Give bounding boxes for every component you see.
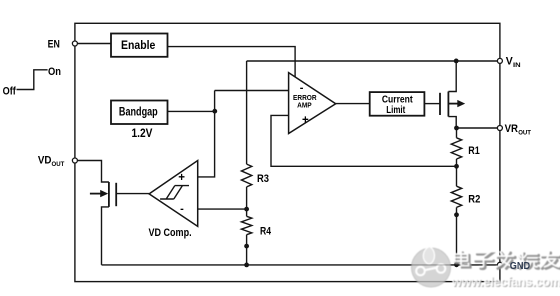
- junction dot bandgap node: [212, 109, 217, 114]
- svg-text:+: +: [178, 172, 185, 184]
- wire error amp plus input from feedback: [271, 115, 457, 166]
- svg-text:Bandgap: Bandgap: [119, 106, 158, 118]
- junction dot below R4: [244, 244, 249, 249]
- wire error amp output to current limit: [336, 103, 370, 105]
- svg-text:GND: GND: [510, 261, 530, 272]
- resistor R3: [241, 164, 251, 187]
- terminal GND: [497, 262, 502, 267]
- terminal VROUT: [497, 126, 502, 131]
- hysteresis symbol: [160, 186, 189, 199]
- svg-text:www.elecfans.com: www.elecfans.com: [451, 275, 560, 289]
- terminal VIN: [497, 58, 502, 63]
- svg-text:EN: EN: [48, 38, 60, 50]
- wire R3 top gap: [246, 187, 248, 216]
- junction dot VROUT at FET source: [454, 126, 459, 131]
- svg-text:VD Comp.: VD Comp.: [149, 227, 192, 239]
- junction dot below R2: [454, 212, 459, 217]
- transistor Q2 (pass FET): [440, 92, 458, 117]
- wire R2 bottom to ground bus: [456, 207, 458, 264]
- transistor Q1 (VDOUT sense FET): [90, 182, 116, 207]
- block Bandgap: [111, 101, 168, 125]
- svg-text:On: On: [48, 66, 61, 78]
- junction dot VIN at FET drain: [454, 59, 459, 64]
- terminal VDOUT: [72, 158, 77, 163]
- watermark url text www.elecfans.com: [451, 275, 560, 290]
- wire pass FET drain to VIN: [448, 61, 456, 92]
- wire VROUT row: [456, 127, 500, 129]
- outer frame rectangle (VIN/GND rails): [75, 23, 500, 281]
- svg-text:VR: VR: [505, 123, 518, 135]
- junction dot R2 column on ground bus: [454, 262, 459, 267]
- wire pass FET source to VROUT: [448, 117, 456, 128]
- wire error amp minus input: [215, 90, 289, 92]
- svg-text:R1: R1: [468, 145, 480, 157]
- terminal EN: [72, 41, 77, 46]
- svg-text:Off: Off: [3, 85, 16, 97]
- svg-text:R2: R2: [468, 194, 480, 206]
- wire VDOUT to sense FET drain: [75, 161, 109, 183]
- junction dot divider on ground bus: [244, 263, 249, 268]
- svg-text:R3: R3: [257, 173, 269, 185]
- wire VD comp output to sense FET gate: [116, 193, 149, 195]
- wire VD comp minus input to divider tap: [198, 208, 247, 210]
- wire sense FET source to ground bus: [102, 207, 109, 265]
- svg-text:IN: IN: [513, 62, 521, 69]
- wire bandgap output: [168, 110, 215, 112]
- svg-text:AMP: AMP: [297, 100, 312, 109]
- svg-text:1.2V: 1.2V: [132, 128, 153, 140]
- svg-text:OUT: OUT: [518, 129, 532, 136]
- svg-text:VD: VD: [38, 154, 52, 166]
- wire Enable output to error amp top edge: [168, 47, 296, 77]
- wire current limit to pass FET gate: [424, 103, 440, 105]
- svg-text:OUT: OUT: [52, 161, 66, 168]
- wire bandgap reference column: [198, 91, 215, 177]
- on/off switch waveform: [17, 70, 48, 90]
- wire divider column top (VIN to R3): [246, 61, 248, 164]
- watermark logo circle: [412, 247, 451, 288]
- wire EN to Enable box: [75, 43, 111, 45]
- junction dot feedback node: [454, 164, 459, 169]
- wire ground bus: [102, 264, 500, 266]
- svg-text:Limit: Limit: [386, 104, 405, 116]
- wire R1 to feedback node: [456, 159, 458, 186]
- wire R1 column top: [456, 128, 458, 138]
- wire VIN row: [247, 60, 500, 62]
- resistor R4: [241, 216, 251, 234]
- svg-text:R4: R4: [260, 226, 272, 238]
- watermark chinese text 电子发烧友: [455, 252, 560, 269]
- svg-text:+: +: [302, 114, 309, 126]
- resistor R1: [451, 138, 461, 159]
- svg-text:-: -: [180, 203, 184, 215]
- block Enable: [111, 34, 168, 57]
- junction dot R3/R4 divider tap: [244, 207, 249, 212]
- svg-text:Enable: Enable: [121, 40, 155, 52]
- wire R4 bottom to ground bus: [246, 235, 248, 265]
- block Current Limit: [370, 92, 425, 116]
- op-amp U2 (VD comparator): [149, 161, 198, 227]
- op-amp U1 (ERROR AMP): [289, 73, 336, 134]
- resistor R2: [451, 186, 461, 207]
